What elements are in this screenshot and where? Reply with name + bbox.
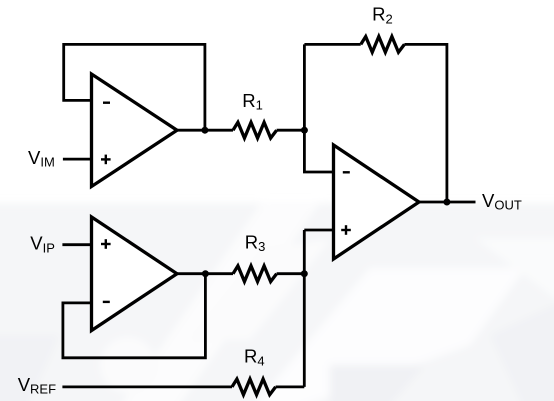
op-amp U1 (top buffer) (92, 74, 178, 187)
U2 minus pin label (103, 301, 110, 303)
wire R3 to node (277, 272, 305, 275)
wire U2 output (177, 272, 233, 275)
wire mid vertical node to R4 (303, 230, 306, 387)
wire U1 feedback loop (64, 44, 205, 130)
resistor R2 (361, 37, 405, 53)
svg-text:R1: R1 (242, 90, 263, 113)
node U2 output junction (202, 270, 209, 277)
svg-text:VOUT: VOUT (482, 190, 522, 213)
U1 minus pin label (103, 101, 110, 103)
node R3 right junction (301, 270, 308, 277)
op-amp U3 (output) (334, 145, 420, 259)
node R1 right junction (301, 127, 308, 134)
wire R2 right down to output node (404, 44, 447, 202)
node U1 output junction (201, 127, 208, 134)
wire left vertical to U3 inverting input (304, 44, 333, 172)
U3 plus pin label (341, 225, 351, 235)
wire U3 plus input (304, 229, 333, 232)
resistor R1 (233, 122, 277, 138)
node output junction (443, 199, 450, 206)
wire R1 to node (277, 129, 305, 132)
wire U1 output (177, 129, 233, 132)
resistor R4 (232, 379, 276, 395)
wire U3 output (419, 201, 476, 204)
wire R4 to mid vertical (276, 385, 305, 388)
op-amp U2 (bottom buffer) (92, 217, 178, 331)
U3 minus pin label (343, 171, 350, 173)
wire VIP to U2 plus input (62, 243, 91, 246)
wire U2 feedback loop (63, 274, 206, 358)
wire VIM to U1 plus input (63, 158, 92, 161)
wire VREF to R4 (62, 385, 232, 388)
svg-text:VIM: VIM (28, 147, 55, 170)
wire R2 top left (304, 43, 360, 46)
svg-text:R2: R2 (372, 4, 393, 27)
U2 plus pin label (101, 239, 111, 249)
resistor R3 (233, 266, 277, 282)
U1 plus pin label (101, 155, 111, 165)
